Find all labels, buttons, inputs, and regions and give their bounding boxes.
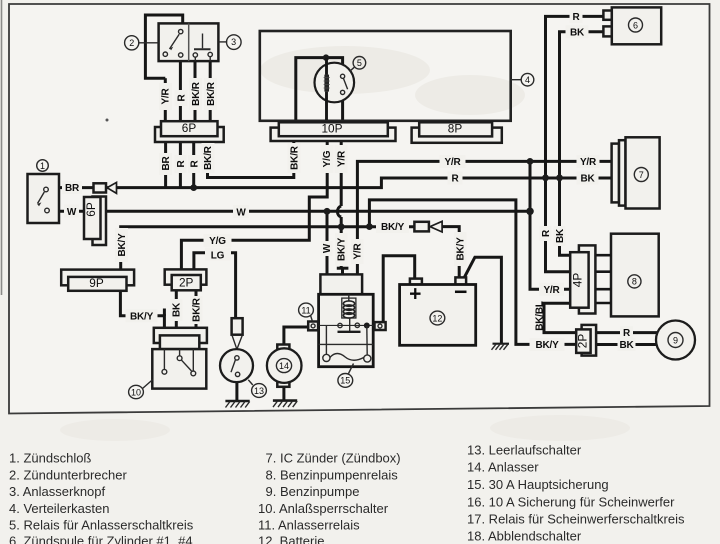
- svg-text:5: 5: [357, 58, 362, 68]
- svg-text:LG: LG: [211, 250, 225, 261]
- svg-text:+: +: [409, 283, 421, 306]
- svg-text:2. Zündunterbrecher: 2. Zündunterbrecher: [9, 468, 127, 483]
- svg-text:8: 8: [632, 277, 637, 287]
- svg-text:6P: 6P: [84, 202, 98, 217]
- svg-text:Y/R: Y/R: [580, 157, 597, 168]
- svg-text:17. Relais für Scheinwerfersch: 17. Relais für Scheinwerferschaltkreis: [467, 512, 685, 527]
- svg-text:BK: BK: [172, 302, 183, 317]
- svg-text:BK/R: BK/R: [191, 81, 202, 106]
- svg-text:4: 4: [525, 75, 530, 85]
- svg-text:BR: BR: [161, 156, 172, 171]
- svg-text:R: R: [451, 174, 459, 185]
- svg-text:BK/R: BK/R: [206, 81, 217, 106]
- svg-text:4P: 4P: [571, 273, 585, 288]
- svg-text:W: W: [236, 207, 246, 218]
- svg-text:15: 15: [340, 376, 350, 386]
- svg-text:5. Relais für Anlasserschaltkr: 5. Relais für Anlasserschaltkreis: [9, 518, 194, 533]
- svg-text:BK/BL: BK/BL: [535, 301, 546, 331]
- svg-text:R: R: [189, 160, 200, 168]
- svg-text:Y/R: Y/R: [161, 87, 172, 104]
- svg-text:R: R: [177, 94, 188, 102]
- svg-text:3: 3: [231, 37, 236, 47]
- svg-text:W: W: [322, 243, 333, 253]
- svg-text:R: R: [541, 229, 552, 237]
- svg-text:BK: BK: [570, 27, 585, 38]
- svg-text:10P: 10P: [322, 121, 343, 135]
- svg-text:BK: BK: [555, 228, 566, 243]
- svg-text:8. Benzinpumpenrelais: 8. Benzinpumpenrelais: [266, 468, 399, 483]
- svg-text:2P: 2P: [179, 275, 194, 289]
- svg-text:R: R: [572, 12, 580, 23]
- svg-text:13: 13: [254, 386, 264, 396]
- svg-text:16. 10 A Sicherung für Scheinw: 16. 10 A Sicherung für Scheinwerfer: [467, 495, 675, 510]
- svg-text:18. Abblendschalter: 18. Abblendschalter: [467, 529, 582, 544]
- svg-text:7. IC Zünder (Zündbox): 7. IC Zünder (Zündbox): [266, 451, 401, 466]
- svg-text:BK: BK: [580, 174, 595, 185]
- svg-text:BK/Y: BK/Y: [535, 340, 559, 351]
- svg-text:Y/R: Y/R: [444, 157, 461, 168]
- svg-text:14. Anlasser: 14. Anlasser: [467, 460, 539, 475]
- svg-text:10. Anlaßsperrschalter: 10. Anlaßsperrschalter: [258, 501, 389, 516]
- svg-text:Y/R: Y/R: [337, 150, 348, 167]
- svg-text:11. Anlasserrelais: 11. Anlasserrelais: [258, 518, 360, 533]
- svg-text:BK/R: BK/R: [289, 145, 300, 170]
- svg-text:4. Verteilerkasten: 4. Verteilerkasten: [9, 501, 109, 516]
- svg-text:15. 30 A Hauptsicherung: 15. 30 A Hauptsicherung: [467, 477, 609, 492]
- svg-text:9. Benzinpumpe: 9. Benzinpumpe: [266, 484, 360, 499]
- svg-text:BK/Y: BK/Y: [337, 237, 348, 261]
- svg-text:1: 1: [40, 161, 45, 171]
- svg-text:BK: BK: [619, 340, 634, 351]
- svg-text:BK/R: BK/R: [203, 145, 214, 170]
- svg-text:2: 2: [129, 38, 134, 48]
- svg-text:12. Batterie: 12. Batterie: [258, 534, 325, 544]
- svg-text:6. Zündspule für Zylinder #1,: 6. Zündspule für Zylinder #1, #4: [9, 534, 193, 544]
- svg-text:BK/Y: BK/Y: [117, 233, 128, 257]
- svg-text:6P: 6P: [182, 121, 197, 135]
- svg-text:10: 10: [131, 387, 141, 397]
- svg-text:7: 7: [639, 170, 644, 180]
- svg-text:1. Zündschloß: 1. Zündschloß: [9, 451, 91, 466]
- svg-text:8P: 8P: [448, 121, 463, 135]
- svg-text:Y/G: Y/G: [322, 150, 333, 167]
- svg-text:12: 12: [432, 313, 442, 323]
- svg-text:9: 9: [673, 335, 678, 345]
- svg-text:2P: 2P: [576, 334, 590, 349]
- svg-text:BK/Y: BK/Y: [456, 237, 467, 261]
- svg-text:R: R: [623, 328, 631, 339]
- svg-text:14: 14: [279, 361, 289, 371]
- svg-text:BR: BR: [65, 183, 80, 194]
- svg-text:13. Leerlaufschalter: 13. Leerlaufschalter: [467, 443, 582, 458]
- svg-text:BK/Y: BK/Y: [381, 222, 405, 233]
- svg-text:3. Anlasserknopf: 3. Anlasserknopf: [9, 484, 106, 499]
- svg-text:W: W: [67, 207, 77, 218]
- svg-text:BK/Y: BK/Y: [130, 311, 154, 322]
- svg-text:Y/R: Y/R: [543, 285, 560, 296]
- svg-text:Y/G: Y/G: [209, 236, 226, 247]
- svg-text:6: 6: [633, 20, 638, 30]
- svg-text:Y/R: Y/R: [353, 242, 364, 259]
- svg-text:R: R: [176, 160, 187, 168]
- svg-text:9P: 9P: [89, 276, 104, 290]
- svg-text:−: −: [454, 279, 467, 305]
- svg-text:BK/R: BK/R: [192, 297, 203, 322]
- svg-text:11: 11: [301, 305, 310, 315]
